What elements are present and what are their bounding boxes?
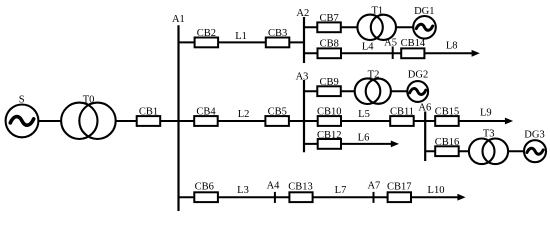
svg-text:CB3: CB3	[268, 28, 287, 39]
svg-text:A7: A7	[367, 181, 380, 192]
svg-text:CB4: CB4	[196, 107, 216, 118]
svg-text:A2: A2	[296, 8, 309, 19]
svg-text:A5: A5	[384, 38, 397, 49]
svg-text:T2: T2	[368, 70, 380, 81]
svg-text:L6: L6	[358, 132, 370, 143]
svg-text:CB11: CB11	[390, 107, 414, 118]
svg-text:L8: L8	[446, 41, 458, 52]
svg-text:CB17: CB17	[387, 182, 412, 193]
svg-text:L4: L4	[362, 42, 374, 53]
svg-text:CB8: CB8	[320, 38, 339, 49]
svg-text:CB10: CB10	[317, 107, 342, 118]
svg-text:CB2: CB2	[197, 28, 216, 39]
svg-text:DG1: DG1	[414, 6, 434, 17]
svg-text:S: S	[19, 94, 25, 105]
svg-text:T0: T0	[83, 94, 95, 105]
svg-text:L10: L10	[428, 185, 445, 196]
svg-text:A4: A4	[267, 181, 281, 192]
svg-text:L3: L3	[237, 185, 249, 196]
svg-text:CB6: CB6	[195, 182, 214, 193]
svg-text:CB15: CB15	[435, 107, 460, 118]
svg-text:A1: A1	[172, 14, 185, 25]
svg-text:CB9: CB9	[319, 77, 338, 88]
svg-text:DG2: DG2	[408, 70, 428, 81]
svg-text:CB16: CB16	[435, 137, 460, 148]
svg-text:CB5: CB5	[268, 107, 287, 118]
svg-text:CB12: CB12	[317, 130, 342, 141]
svg-text:L1: L1	[235, 31, 247, 42]
svg-text:A3: A3	[296, 72, 309, 83]
svg-text:A6: A6	[418, 102, 431, 113]
svg-text:CB13: CB13	[288, 182, 313, 193]
svg-text:DG3: DG3	[524, 130, 544, 141]
svg-text:L7: L7	[335, 185, 347, 196]
svg-text:T3: T3	[483, 128, 495, 139]
svg-text:CB14: CB14	[401, 38, 426, 49]
svg-text:T1: T1	[371, 6, 383, 17]
svg-text:CB1: CB1	[139, 107, 158, 118]
svg-text:L9: L9	[480, 108, 492, 119]
svg-text:CB7: CB7	[319, 13, 338, 24]
svg-text:L2: L2	[238, 109, 250, 120]
svg-text:L5: L5	[358, 109, 370, 120]
